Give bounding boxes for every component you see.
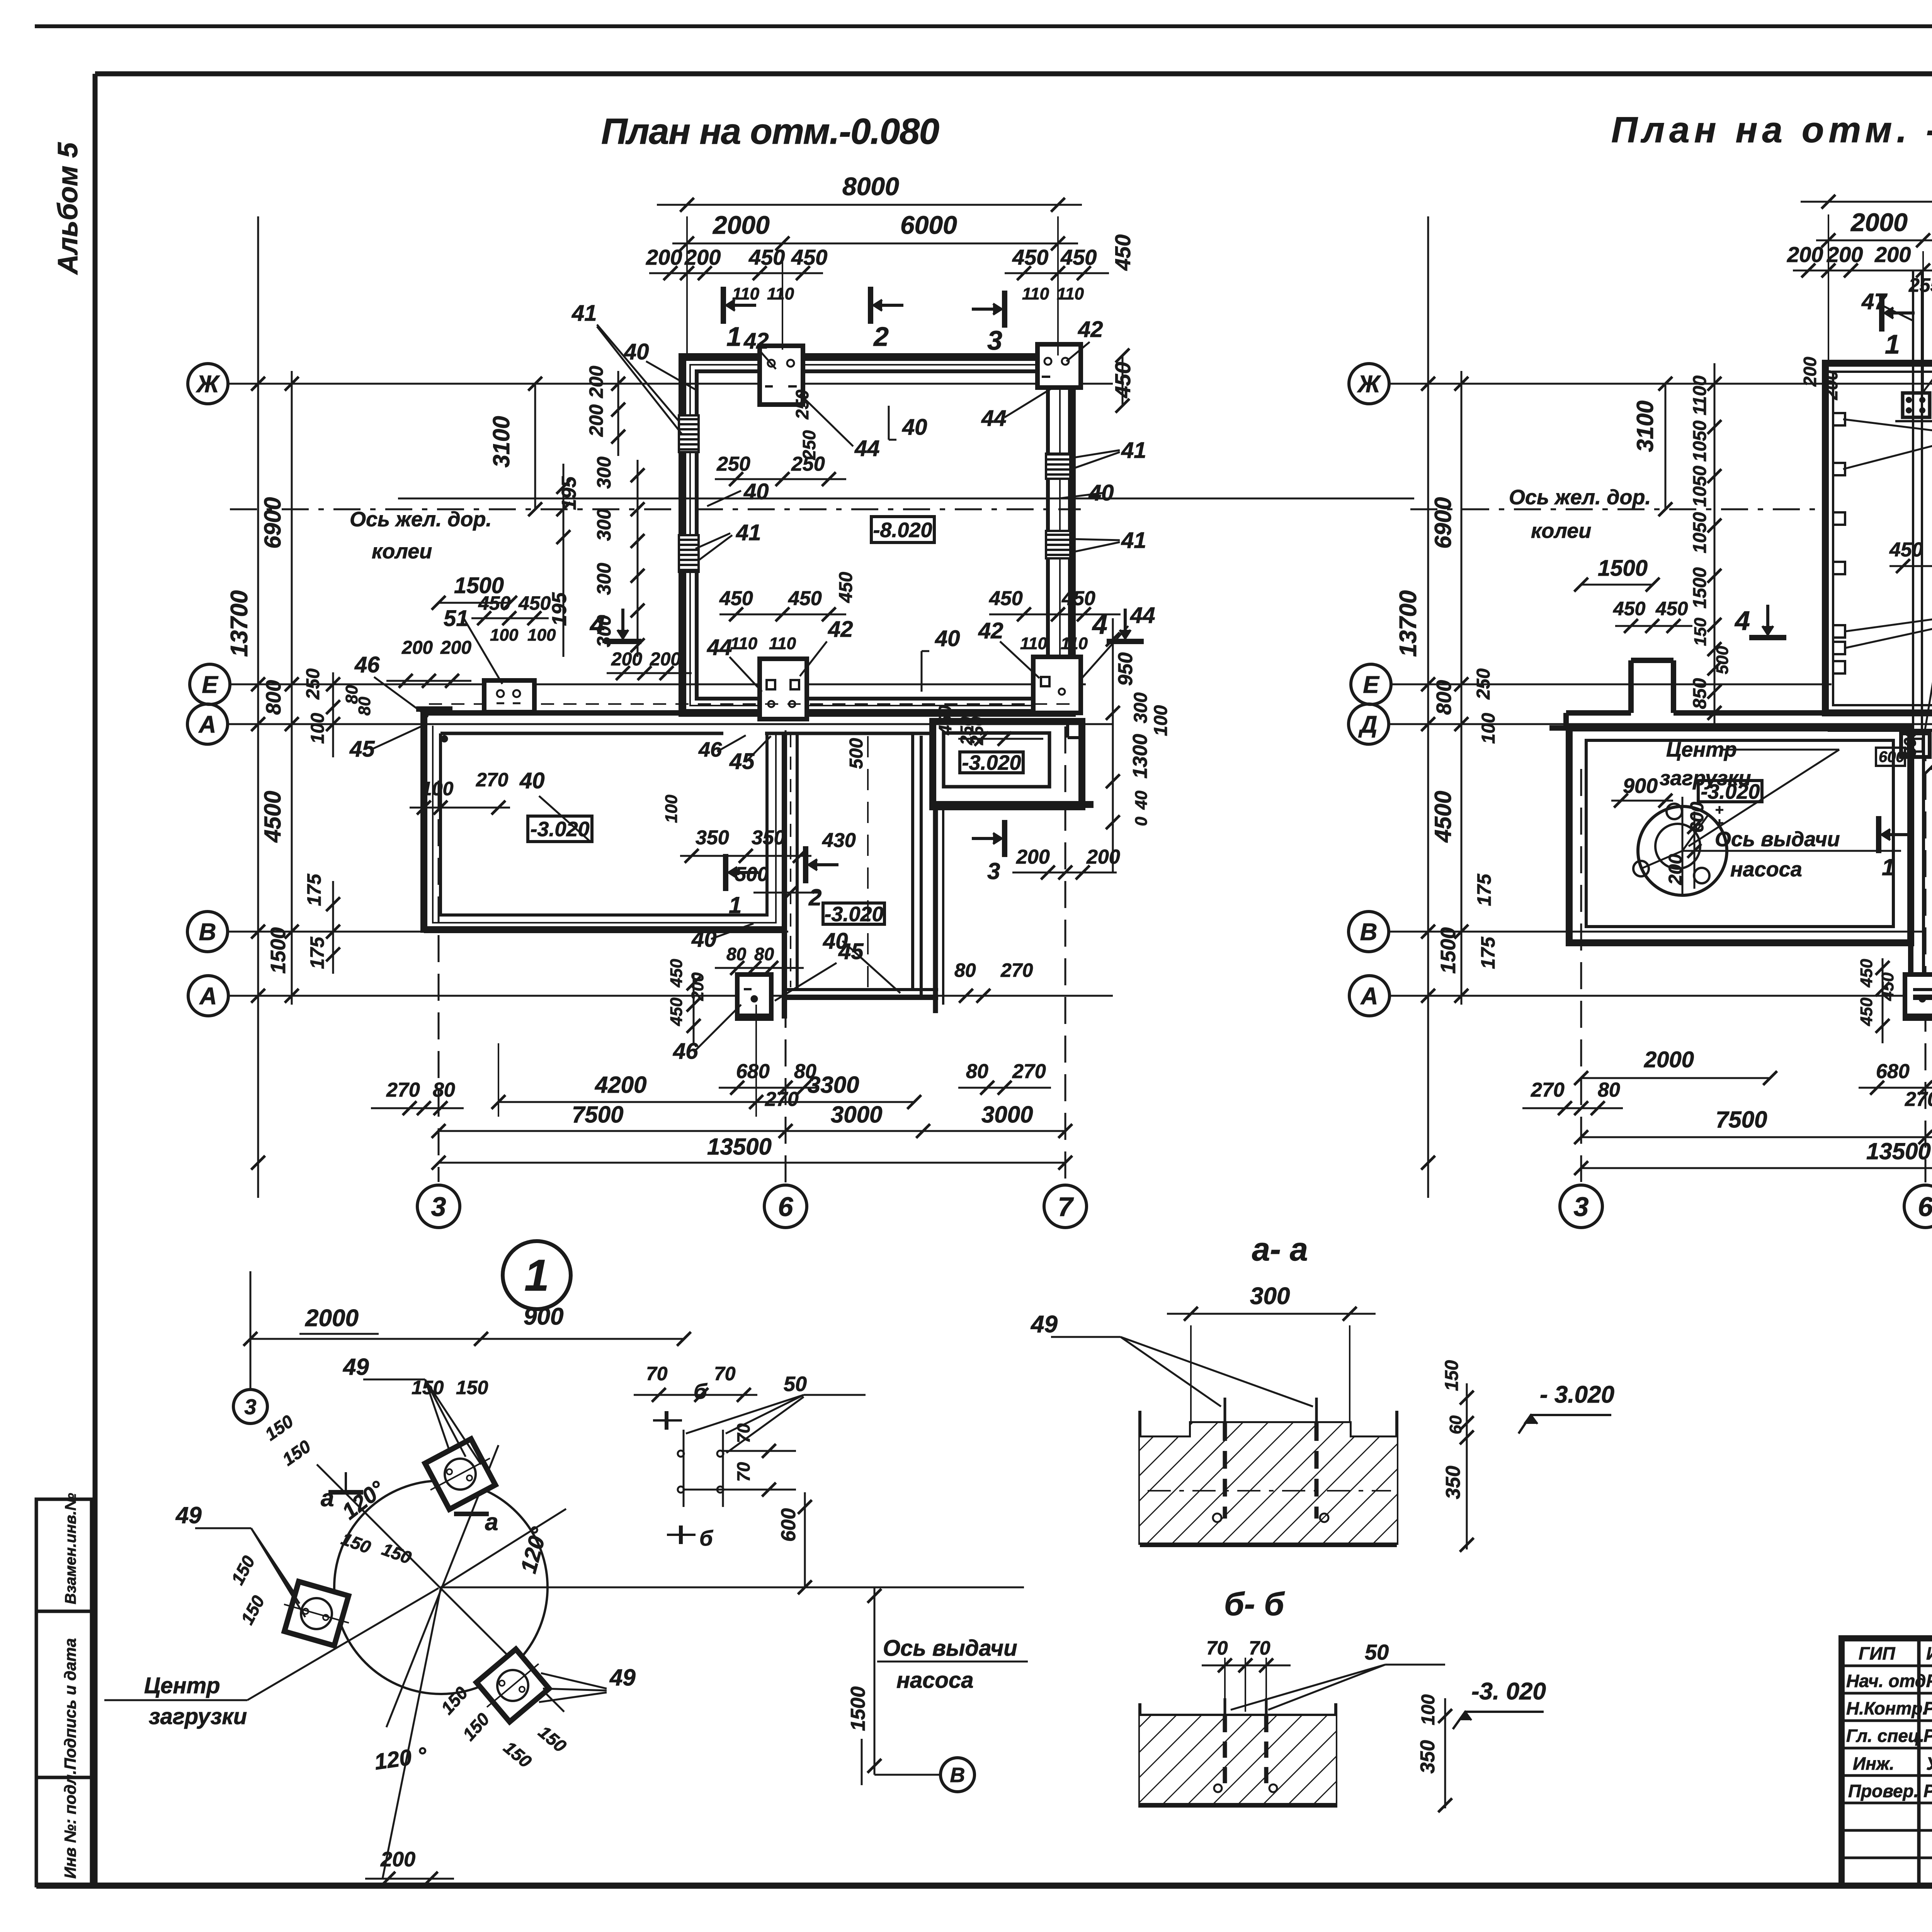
- svg-text:450: 450: [935, 705, 955, 735]
- detail axis 3 line: [250, 1271, 252, 1389]
- svg-text:4: 4: [1734, 605, 1750, 636]
- signature table columns: [1917, 1638, 1921, 1886]
- svg-text:100: 100: [662, 794, 681, 823]
- svg-text:3: 3: [244, 1395, 256, 1419]
- section mark 3 right area: [972, 837, 1002, 840]
- signature table rows: [1842, 1665, 1932, 1667]
- svg-text:800: 800: [1432, 680, 1456, 715]
- svg-text:44: 44: [981, 406, 1007, 431]
- axis Zh line (right plan): [1389, 383, 1932, 385]
- section mark 2 top: [874, 304, 903, 307]
- svg-text:270: 270: [1905, 1088, 1932, 1111]
- dim 2000 6000: [782, 255, 783, 350]
- dim 450 450 bump right plan: [1615, 625, 1692, 627]
- svg-text:950: 950: [1114, 652, 1137, 686]
- section b-b hatch: [1140, 1716, 1336, 1805]
- svg-text:450: 450: [989, 587, 1023, 610]
- svg-text:Рашевский: Рашевский: [1923, 1726, 1932, 1746]
- svg-text:250: 250: [792, 389, 812, 420]
- svg-text:а- а: а- а: [1252, 1231, 1308, 1267]
- svg-text:1300: 1300: [1129, 734, 1151, 779]
- svg-text:110: 110: [732, 284, 760, 303]
- svg-text:А: А: [1360, 983, 1378, 1010]
- svg-text:2000: 2000: [712, 211, 770, 239]
- svg-text:250: 250: [799, 430, 819, 460]
- svg-text:450: 450: [748, 245, 785, 269]
- svg-text:6: 6: [1918, 1192, 1932, 1222]
- svg-text:430: 430: [822, 829, 856, 852]
- svg-text:Инж.: Инж.: [1853, 1753, 1895, 1774]
- pocket 44 bottom-right corner: [1033, 657, 1081, 713]
- svg-text:350: 350: [1442, 1466, 1464, 1499]
- svg-text:8000: 8000: [842, 172, 899, 201]
- svg-text:250: 250: [303, 668, 323, 700]
- section b-b bottom line: [1140, 1803, 1336, 1808]
- svg-text:3: 3: [987, 325, 1002, 355]
- svg-text:450: 450: [1111, 362, 1135, 398]
- svg-text:45: 45: [838, 939, 864, 964]
- svg-text:41: 41: [1121, 438, 1146, 463]
- svg-text:200: 200: [440, 638, 471, 658]
- svg-text:6900: 6900: [260, 497, 286, 549]
- svg-text:255: 255: [1908, 274, 1932, 296]
- svg-text:900: 900: [524, 1303, 563, 1330]
- svg-text:Рыбкина: Рыбкина: [1926, 1671, 1932, 1691]
- vertical dim chain right plan: [1714, 363, 1716, 728]
- svg-text:450: 450: [836, 572, 856, 603]
- svg-text:-3.020: -3.020: [962, 751, 1021, 774]
- dim 250 250 upper pocket: [715, 478, 846, 480]
- svg-text:200: 200: [1787, 242, 1823, 267]
- dim 200 200 left corridor: [386, 680, 471, 682]
- section mark 2 bottom: [809, 863, 838, 866]
- wall hatch band 41 left upper: [679, 415, 699, 452]
- svg-text:110: 110: [1057, 284, 1084, 303]
- svg-text:насоса: насоса: [1730, 858, 1802, 881]
- svg-text:Ось жел. дор.: Ось жел. дор.: [1509, 486, 1651, 509]
- pocket 46 bottom: [737, 975, 771, 1019]
- svg-text:В: В: [199, 919, 216, 946]
- svg-text:40: 40: [743, 479, 769, 504]
- svg-text:А: А: [198, 711, 216, 738]
- svg-text:300: 300: [593, 456, 615, 489]
- pump inner circle: [1655, 824, 1700, 869]
- dim 200 200 bottom right: [1012, 872, 1117, 874]
- svg-text:44: 44: [707, 635, 732, 660]
- elevation -3.020 lower-left room: [528, 816, 592, 842]
- section mark 1 top right plan: [1885, 311, 1915, 315]
- svg-text:270: 270: [1012, 1060, 1046, 1083]
- svg-text:195: 195: [548, 592, 571, 626]
- svg-text:Альбом 5: Альбом 5: [53, 142, 83, 275]
- svg-text:450: 450: [788, 587, 822, 610]
- svg-text:3: 3: [987, 858, 1000, 884]
- svg-text:2: 2: [808, 884, 821, 910]
- svg-text:6: 6: [778, 1192, 794, 1222]
- bolt plate left: [284, 1582, 349, 1646]
- axis 6 circle: [764, 1185, 807, 1228]
- svg-text:175: 175: [1477, 936, 1499, 969]
- section a-a anchor bolt left: [1224, 1398, 1226, 1423]
- svg-text:44: 44: [854, 436, 880, 461]
- svg-text:450: 450: [719, 587, 753, 610]
- svg-text:450: 450: [1613, 598, 1646, 619]
- svg-text:270: 270: [765, 1088, 799, 1111]
- svg-text:80: 80: [966, 1060, 988, 1083]
- left wing bump right plan: [1671, 660, 1676, 713]
- dim 7500 3000 3000 row: [439, 1130, 1065, 1132]
- section mark 1 bottom-left plan: [729, 871, 759, 874]
- left margin stamp boxes: [36, 1499, 92, 1611]
- elevation -3.020 pump room: [1698, 781, 1762, 802]
- pump circle: [1638, 806, 1727, 895]
- svg-text:Ось выдачи: Ось выдачи: [883, 1636, 1017, 1661]
- svg-text:4200: 4200: [595, 1072, 646, 1098]
- svg-text:a: a: [321, 1485, 334, 1512]
- axis 6 line (left plan): [785, 730, 787, 1182]
- right small room bottom heavy wall: [933, 801, 1094, 808]
- room2 right wall: [911, 733, 914, 990]
- dim 8000 top right plan: [1828, 214, 1829, 361]
- axis 7 circle: [1044, 1185, 1087, 1228]
- svg-text:40: 40: [624, 339, 649, 364]
- svg-text:47: 47: [1861, 289, 1888, 314]
- svg-text:Рашевский: Рашевский: [1923, 1698, 1932, 1718]
- pocket 44 bottom-center: [760, 659, 807, 719]
- svg-text:- 3.020: - 3.020: [1540, 1381, 1614, 1408]
- svg-text:Нач. отд.: Нач. отд.: [1846, 1671, 1931, 1691]
- svg-text:110: 110: [769, 634, 796, 653]
- svg-text:40: 40: [902, 415, 927, 440]
- svg-text:100: 100: [490, 626, 519, 645]
- svg-text:100: 100: [1418, 1694, 1439, 1725]
- pump room inner wall: [1586, 740, 1893, 927]
- middle strip right plan: [1908, 733, 1913, 1019]
- svg-text:270: 270: [476, 769, 509, 791]
- wall below right small room: [933, 807, 938, 1013]
- pump axis line: [1682, 850, 1901, 852]
- svg-text:2000: 2000: [1850, 208, 1908, 236]
- svg-text:200: 200: [1800, 357, 1820, 387]
- corridor top wall right plan: [1566, 710, 1631, 716]
- dim 2000 6000 right plan: [1922, 251, 1924, 390]
- svg-text:1: 1: [1885, 329, 1900, 359]
- section mark 4 right: [1124, 609, 1127, 638]
- svg-text:3000: 3000: [981, 1102, 1033, 1128]
- svg-text:40: 40: [935, 626, 960, 651]
- dim row 200 200 200 right plan: [1793, 270, 1932, 272]
- svg-text:200: 200: [585, 366, 607, 398]
- svg-text:ГИП: ГИП: [1859, 1643, 1895, 1663]
- svg-text:1: 1: [729, 892, 742, 918]
- axis 6 line (right plan): [1925, 734, 1927, 1182]
- axis B circle right: [1349, 912, 1389, 952]
- svg-text:200: 200: [1086, 846, 1120, 868]
- axis B line (right plan): [1389, 931, 1922, 933]
- dim row 450 450 right: [1005, 272, 1109, 274]
- section a-a bottom line: [1140, 1543, 1397, 1547]
- svg-text:100: 100: [1151, 705, 1171, 736]
- svg-text:70: 70: [714, 1363, 736, 1384]
- svg-text:200: 200: [1665, 854, 1686, 885]
- svg-text:60: 60: [1446, 1415, 1465, 1434]
- svg-text:70: 70: [646, 1363, 668, 1384]
- svg-text:1100: 1100: [1690, 375, 1710, 415]
- corridor bottom wall: [440, 732, 723, 735]
- axis B circle: [187, 912, 228, 952]
- svg-text:450: 450: [1889, 539, 1923, 561]
- axis E circle right: [1351, 664, 1391, 704]
- svg-text:Иванова: Иванова: [1926, 1643, 1932, 1663]
- section mark 3 top: [972, 308, 1002, 311]
- svg-text:450: 450: [1655, 598, 1688, 619]
- svg-text:1500: 1500: [267, 927, 290, 974]
- dim 13500 row: [439, 1162, 1065, 1164]
- dim row 200 200 450 450: [649, 272, 823, 274]
- svg-text:200: 200: [1016, 846, 1050, 868]
- detail axis B circle: [874, 1774, 940, 1776]
- svg-text:Рашевский: Рашевский: [1923, 1781, 1932, 1801]
- big room inner line right plan: [1833, 372, 1932, 705]
- svg-text:1050: 1050: [1690, 512, 1710, 553]
- upper room outer wall: [682, 357, 1072, 713]
- svg-text:500: 500: [1713, 646, 1732, 674]
- svg-text:40: 40: [1132, 791, 1151, 810]
- big room outer wall right plan: [1825, 363, 1932, 713]
- svg-text:-3.020: -3.020: [824, 903, 883, 926]
- title block outer: [1842, 1638, 1932, 1886]
- svg-text:Ж: Ж: [1357, 371, 1381, 398]
- axis 3 circle right: [1560, 1185, 1602, 1228]
- svg-text:680: 680: [736, 1060, 770, 1083]
- svg-text:1500: 1500: [1690, 567, 1710, 609]
- svg-text:200: 200: [1874, 242, 1911, 267]
- svg-text:42: 42: [743, 328, 769, 354]
- svg-text:350: 350: [1417, 1740, 1439, 1774]
- svg-text:49: 49: [609, 1665, 636, 1690]
- svg-text:42: 42: [978, 618, 1003, 643]
- elevation -3.020 right small room: [960, 752, 1023, 773]
- svg-text:0: 0: [1132, 816, 1151, 826]
- svg-text:110: 110: [1022, 284, 1049, 303]
- svg-text:110: 110: [1061, 634, 1088, 653]
- svg-text:44: 44: [1130, 603, 1155, 628]
- dim 450 450 bump: [471, 617, 549, 619]
- svg-text:колеи: колеи: [372, 540, 432, 563]
- svg-text:110: 110: [767, 284, 794, 303]
- svg-text:450: 450: [791, 245, 827, 269]
- svg-text:42: 42: [828, 617, 853, 642]
- dim 4200 3300 row: [498, 1101, 914, 1103]
- lower-left room outer wall: [420, 709, 427, 933]
- svg-text:450: 450: [667, 959, 686, 988]
- svg-text:41: 41: [736, 520, 761, 545]
- section mark 1 bottom right plan: [1882, 833, 1912, 836]
- axis Zh line (left plan): [228, 383, 1113, 385]
- svg-text:80: 80: [1598, 1079, 1620, 1101]
- svg-text:2000: 2000: [305, 1305, 359, 1332]
- svg-text:850: 850: [1690, 678, 1710, 709]
- lower-left room wall dashes: [433, 726, 776, 923]
- svg-text:-3.020: -3.020: [530, 818, 589, 841]
- svg-text:4: 4: [589, 609, 605, 639]
- svg-text:100: 100: [421, 778, 454, 799]
- svg-text:б- б: б- б: [1224, 1586, 1285, 1622]
- section b-b right dims: [1444, 1698, 1446, 1808]
- axis 7 line (left plan): [1065, 726, 1066, 1181]
- section a-a dim 300: [1190, 1325, 1192, 1422]
- svg-text:110: 110: [730, 634, 758, 653]
- dim 450 450 mid right: [989, 614, 1121, 616]
- pocket 46 bottom right plan: [1905, 975, 1932, 1019]
- axis B line (left plan): [228, 931, 788, 933]
- svg-text:-3. 020: -3. 020: [1471, 1678, 1546, 1705]
- detail dim 2000 900: [250, 1338, 684, 1340]
- svg-text:200: 200: [650, 649, 681, 670]
- svg-text:Д: Д: [1358, 711, 1378, 738]
- axis D circle right: [1349, 704, 1389, 744]
- right small room inner wall: [944, 733, 1049, 787]
- svg-text:270: 270: [386, 1079, 420, 1101]
- section a-a anchor bolt right: [1315, 1398, 1318, 1423]
- svg-text:б: б: [699, 1526, 713, 1550]
- svg-text:150: 150: [1691, 617, 1710, 646]
- axis 6 circle right: [1904, 1185, 1932, 1228]
- svg-text:-3.020: -3.020: [1701, 780, 1760, 803]
- svg-text:В: В: [1360, 919, 1378, 946]
- section b-b dim 70 70: [1224, 1658, 1226, 1712]
- upper room wall dashes: [690, 365, 1060, 706]
- dim 2000 bottom right plan: [1581, 1077, 1770, 1079]
- svg-text:450: 450: [1857, 959, 1876, 988]
- svg-text:13500: 13500: [1866, 1138, 1931, 1164]
- svg-text:Центр: Центр: [144, 1673, 220, 1698]
- svg-text:450: 450: [1878, 972, 1897, 1001]
- svg-text:150: 150: [1442, 1360, 1462, 1391]
- svg-text:В: В: [950, 1764, 965, 1787]
- axis A circle: [187, 704, 228, 744]
- anchor plate 43 top-left: [1903, 393, 1930, 417]
- svg-text:49: 49: [343, 1354, 369, 1380]
- svg-text:1050: 1050: [1690, 466, 1710, 507]
- svg-text:500: 500: [735, 863, 769, 886]
- svg-text:500: 500: [846, 738, 867, 769]
- svg-text:100: 100: [308, 713, 328, 744]
- svg-text:200: 200: [1827, 242, 1863, 267]
- svg-text:План на отм. - 3.000: План на отм. - 3.000: [1611, 109, 1932, 150]
- elevation -3.020 room2: [823, 903, 884, 924]
- dim 450 450 mid right plan: [1889, 565, 1932, 567]
- svg-text:50: 50: [784, 1372, 807, 1396]
- svg-text:450: 450: [667, 997, 686, 1026]
- svg-text:7500: 7500: [1716, 1107, 1767, 1133]
- svg-text:100: 100: [1478, 713, 1499, 744]
- dim 600 box: [1876, 748, 1905, 766]
- svg-text:Ось выдачи: Ось выдачи: [1715, 828, 1840, 851]
- svg-text:70: 70: [1249, 1637, 1270, 1659]
- axis A2 circle: [188, 976, 228, 1016]
- svg-text:80: 80: [954, 959, 976, 981]
- svg-text:1: 1: [726, 321, 742, 352]
- middle strip wall outer: [782, 733, 787, 1019]
- svg-text:4500: 4500: [260, 791, 286, 843]
- svg-text:100: 100: [527, 626, 556, 645]
- detail construction circle: [334, 1481, 548, 1694]
- middle strip dashes: [790, 734, 791, 987]
- svg-text:3100: 3100: [488, 416, 514, 468]
- svg-text:350: 350: [696, 827, 729, 849]
- svg-text:49: 49: [1030, 1311, 1058, 1338]
- room2 bottom wall: [787, 988, 938, 991]
- detail 1 title circle: [503, 1241, 571, 1309]
- upper room inner wall line: [697, 371, 1048, 699]
- svg-text:300: 300: [593, 509, 615, 541]
- axis 3 line (left plan): [438, 781, 440, 1182]
- svg-text:колеи: колеи: [1531, 519, 1591, 543]
- svg-text:План на отм.-0.080: План на отм.-0.080: [601, 111, 939, 151]
- axis E line (left plan): [230, 684, 1086, 685]
- svg-text:250: 250: [716, 453, 750, 475]
- axis A circle right: [1349, 976, 1389, 1016]
- svg-text:загрузки: загрузки: [149, 1704, 247, 1729]
- svg-text:270: 270: [1531, 1079, 1565, 1101]
- corridor top wall left segment: [424, 710, 684, 716]
- axis D line (right plan): [1389, 723, 1932, 725]
- svg-text:7500: 7500: [572, 1102, 623, 1128]
- svg-text:600: 600: [777, 1508, 800, 1542]
- wall hatch band 41 right upper: [1046, 454, 1070, 479]
- svg-text:46: 46: [698, 738, 722, 761]
- wall hatch band 41 left lower: [679, 535, 699, 572]
- svg-text:42: 42: [1078, 317, 1103, 342]
- svg-text:1: 1: [1882, 854, 1895, 880]
- svg-text:800: 800: [262, 680, 285, 715]
- svg-text:270: 270: [1000, 959, 1033, 981]
- svg-text:450: 450: [1060, 245, 1097, 269]
- pump center cross: [1716, 809, 1723, 811]
- section b-b concrete outline: [1140, 1714, 1336, 1718]
- svg-text:80: 80: [355, 697, 374, 716]
- middle strip wall inner: [796, 733, 799, 990]
- svg-text:49: 49: [175, 1502, 202, 1528]
- svg-text:70: 70: [733, 1462, 753, 1482]
- axis E circle: [190, 664, 230, 704]
- svg-text:175: 175: [306, 936, 328, 969]
- svg-text:680: 680: [1876, 1060, 1910, 1083]
- section mark 4 left right plan: [1766, 605, 1769, 634]
- railway centerline right: [1410, 509, 1828, 510]
- svg-text:70: 70: [1206, 1637, 1228, 1659]
- svg-text:41: 41: [571, 301, 597, 326]
- corridor bottom right plan: [1549, 726, 1825, 730]
- svg-text:150: 150: [456, 1377, 488, 1398]
- svg-text:200: 200: [611, 649, 642, 670]
- svg-text:6900: 6900: [1430, 497, 1456, 549]
- svg-text:150: 150: [412, 1377, 444, 1398]
- svg-text:-8.020: -8.020: [873, 519, 932, 542]
- svg-text:80: 80: [754, 944, 774, 964]
- svg-text:250: 250: [1473, 668, 1494, 700]
- svg-text:13700: 13700: [226, 590, 253, 657]
- svg-text:насоса: насоса: [896, 1668, 974, 1693]
- bolt plate top: [425, 1439, 495, 1509]
- svg-text:50: 50: [1365, 1640, 1389, 1664]
- detail center lines: [441, 1587, 1024, 1588]
- svg-text:450: 450: [478, 592, 511, 614]
- svg-text:600: 600: [1687, 802, 1708, 833]
- axis A line (right plan): [1389, 995, 1932, 997]
- svg-text:41: 41: [1121, 528, 1146, 553]
